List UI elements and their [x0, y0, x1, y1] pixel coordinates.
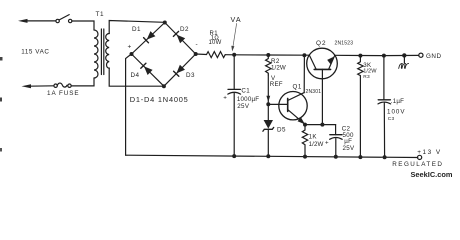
svg-text:Q1: Q1	[293, 84, 302, 91]
label R1 1ohm 10W	[209, 31, 222, 46]
top rail: VA to R2 node	[234, 54, 268, 56]
bridge edge B-R with diode D3	[164, 54, 196, 86]
wire: VREF node to Q1 base	[268, 103, 287, 105]
junction: bridge top vertex	[163, 21, 167, 25]
junction: 1K bottom on rail	[303, 155, 307, 159]
svg-text:VA: VA	[231, 16, 242, 24]
resistor R3 3K 1/2W	[358, 56, 363, 157]
resistor 1K 1/2W	[302, 125, 307, 157]
wire: switch to transformer primary top	[72, 21, 94, 30]
svg-text:25V: 25V	[237, 103, 250, 110]
junction: C3 bottom on rail	[383, 155, 387, 159]
scan speck left edge 2	[0, 98, 2, 102]
junction: bridge bottom vertex	[162, 84, 166, 88]
bridge edge L-B with diode D4	[132, 54, 164, 86]
junction: C3 top on rail	[382, 54, 386, 58]
capacitor C1	[228, 89, 241, 156]
svg-text:+: +	[223, 95, 227, 102]
bridge edge T-L with diode D1	[132, 23, 165, 55]
AC line terminal arrow (top)	[18, 19, 56, 23]
top rail: 3K node to C3 node	[360, 55, 384, 57]
top rail: R2 node to Q2	[268, 54, 309, 56]
svg-text:1/2W: 1/2W	[309, 141, 324, 148]
wire: R2 to VREF node with arrow	[266, 75, 270, 104]
label C2 500uF 25V	[342, 125, 355, 152]
svg-text:1000µF: 1000µF	[237, 96, 259, 103]
+13V output terminal circle	[418, 155, 422, 159]
switch S1	[56, 15, 72, 23]
top rail: C3 node to GND terminal	[384, 54, 419, 56]
wire: secondary bottom to bridge bottom vertex	[109, 68, 164, 86]
svg-text:T1: T1	[96, 11, 105, 18]
junction: C2 bottom on rail	[334, 155, 338, 159]
transistor Q2 2N1523	[307, 48, 338, 124]
junction: chassis ground on rail	[402, 53, 406, 57]
label .1uF 100V C3	[387, 98, 405, 122]
junction: R2 top on rail	[266, 53, 270, 57]
svg-text:D2: D2	[180, 26, 189, 33]
scan speck left edge 3	[0, 148, 2, 152]
junction: C1 bottom on rail	[232, 154, 236, 158]
svg-text:115 VAC: 115 VAC	[21, 49, 49, 56]
label 3K 1/2W R3	[363, 62, 377, 80]
transformer T1 secondary winding	[106, 34, 109, 69]
svg-text:+: +	[325, 139, 329, 146]
scan speck left edge 1	[0, 57, 3, 61]
top rail: Q2 to 3K node	[335, 54, 361, 56]
resistor R2	[266, 55, 271, 75]
label VA with leader arrow	[231, 16, 242, 52]
svg-text:2N1523: 2N1523	[335, 41, 354, 47]
capacitor C1 wire from VA	[233, 55, 235, 90]
junction: Q1 emitter node	[303, 123, 307, 127]
svg-text:D3: D3	[186, 72, 195, 79]
capacitor C3 .1uF 100V	[378, 56, 391, 158]
junction: Q1 collector on rail	[302, 53, 306, 57]
svg-text:REGULATED: REGULATED	[392, 161, 443, 168]
wire: secondary top to bridge top vertex	[109, 21, 164, 34]
resistor R1	[207, 52, 226, 58]
junction: Q2 base node	[320, 123, 324, 127]
svg-text:1K: 1K	[309, 133, 318, 140]
chassis ground symbol	[399, 55, 409, 68]
node wire: Q1 emitter / Q2 base / C2	[305, 124, 336, 126]
bottom rail (+13V)	[126, 155, 418, 157]
junction: bridge left vertex (+)	[130, 52, 134, 56]
svg-text:1A FUSE: 1A FUSE	[47, 90, 80, 97]
label R2 1/2W	[271, 58, 286, 72]
svg-text:D5: D5	[277, 126, 286, 133]
svg-text:Q2: Q2	[316, 40, 327, 47]
node VA	[232, 53, 236, 57]
svg-text:C1: C1	[241, 88, 250, 95]
top rail: R1 to VA node	[225, 54, 234, 56]
svg-text:µF: µF	[344, 138, 352, 145]
AC line terminal arrow (bottom)	[22, 84, 55, 88]
svg-text:C3: C3	[388, 116, 395, 122]
junction: R3 top on rail	[358, 54, 362, 58]
transformer T1 core	[100, 29, 102, 75]
junction: D5 bottom on rail	[266, 154, 270, 158]
wire: bridge + vertex down to bottom rail	[126, 54, 132, 155]
svg-text:2N301: 2N301	[306, 89, 322, 95]
svg-text:1/2W: 1/2W	[363, 69, 377, 75]
svg-text:-: -	[196, 41, 198, 48]
bridge edge T-R with diode D2	[165, 23, 196, 55]
transistor Q1 2N301	[279, 92, 307, 125]
label V REF	[270, 75, 283, 88]
svg-text:REF: REF	[270, 81, 283, 88]
svg-text:D1-D4 1N4005: D1-D4 1N4005	[130, 95, 189, 104]
zener diode D5	[263, 104, 274, 156]
junction: bridge right vertex (-)	[194, 52, 198, 56]
svg-text:10W: 10W	[209, 40, 222, 46]
label C1 1000uF 25V	[237, 88, 259, 111]
svg-text:100V: 100V	[387, 108, 405, 115]
top rail: bridge - vertex to R1	[196, 53, 207, 56]
junction: R3 bottom on rail	[358, 155, 362, 159]
svg-text:1/2W: 1/2W	[271, 64, 286, 71]
label 1K 1/2W	[309, 133, 324, 148]
svg-text:D1: D1	[132, 26, 141, 33]
svg-text:+: +	[128, 44, 132, 51]
svg-text:+13 V: +13 V	[417, 149, 441, 156]
svg-text:R3: R3	[363, 74, 370, 80]
svg-text:.1µF: .1µF	[391, 98, 404, 105]
svg-text:SeekIC.com: SeekIC.com	[411, 170, 453, 179]
junction: VREF node (Q1 base)	[266, 102, 270, 106]
wire: Q1 collector up to top rail	[303, 55, 305, 92]
svg-text:GND: GND	[426, 53, 442, 60]
svg-text:D4: D4	[131, 72, 140, 79]
GND terminal circle	[419, 53, 423, 57]
capacitor C2 500uF 25V	[330, 125, 343, 157]
fuse F1 1A	[54, 83, 71, 87]
transformer T1 primary winding	[94, 30, 98, 78]
wire: primary bottom to fuse	[71, 78, 94, 86]
svg-text:25V: 25V	[343, 145, 355, 152]
